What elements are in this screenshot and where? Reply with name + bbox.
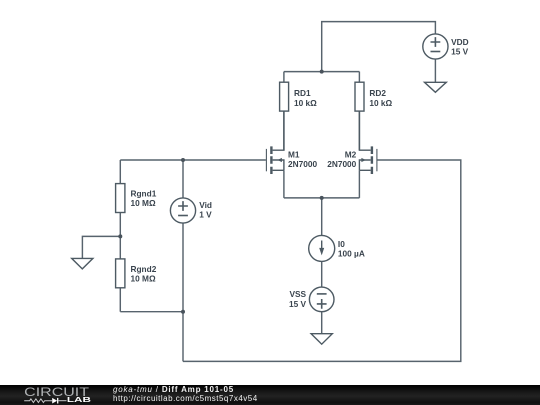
- svg-text:LAB: LAB: [67, 395, 91, 404]
- svg-text:10 kΩ: 10 kΩ: [369, 98, 392, 108]
- svg-text:100 µA: 100 µA: [338, 249, 365, 259]
- CircuitLab logo: [0, 385, 110, 405]
- wire I0 to VSS: [321, 261, 323, 287]
- svg-text:Rgnd1: Rgnd1: [131, 189, 157, 199]
- label Rgnd1 value: [131, 189, 157, 209]
- label VSS value: [289, 289, 307, 309]
- footer title text: [113, 385, 234, 394]
- svg-text:M2: M2: [345, 150, 357, 160]
- svg-text:10 kΩ: 10 kΩ: [294, 98, 317, 108]
- ground (VSS): [311, 334, 332, 345]
- label I0 value: [338, 239, 365, 258]
- current source I0: [309, 235, 335, 261]
- wire bottom rail and right riser to M2 gate: [183, 160, 461, 361]
- svg-text:10 MΩ: 10 MΩ: [131, 274, 156, 284]
- wire Vid branch down to bottom rail: [182, 312, 184, 362]
- label M2 value: [327, 150, 356, 170]
- wire VSS to ground: [321, 311, 323, 333]
- wire gate rail to M1 gate: [120, 159, 266, 161]
- node B junction dot (gate rail / Vid): [181, 158, 185, 162]
- voltage source VSS: [309, 287, 334, 312]
- svg-text:15 V: 15 V: [451, 46, 469, 56]
- svg-text:VSS: VSS: [289, 289, 306, 299]
- node D junction dot (Rgnd divider): [118, 234, 122, 238]
- label VDD value: [451, 37, 469, 56]
- svg-text:RD1: RD1: [294, 88, 311, 98]
- svg-text:2N7000: 2N7000: [288, 159, 317, 169]
- resistor Rgnd2: [116, 259, 125, 288]
- label M1 value: [288, 150, 317, 170]
- node C junction dot (source rail): [320, 196, 324, 200]
- svg-text:Vid: Vid: [199, 200, 212, 210]
- voltage source Vid: [170, 198, 195, 223]
- wire M1 source down: [283, 170, 285, 198]
- wire left ground stub: [82, 236, 120, 258]
- wire RD2 bottom lead to M2 drain: [358, 111, 360, 150]
- svg-text:1 V: 1 V: [199, 210, 212, 220]
- wire Rgnd2 top lead: [119, 236, 121, 259]
- resistor RD2: [355, 82, 364, 111]
- wire Vid top lead: [182, 160, 184, 198]
- wire RD1 bottom lead to M1 drain: [283, 111, 285, 150]
- svg-text:15 V: 15 V: [289, 299, 307, 309]
- transistor M2: [359, 111, 377, 174]
- node A junction dot (top rail): [320, 70, 324, 74]
- node E junction dot (bottom left): [181, 310, 185, 314]
- voltage source VDD: [423, 34, 448, 59]
- footer bar: [0, 385, 540, 405]
- wire Rgnd1 top lead: [119, 160, 121, 184]
- svg-text:2N7000: 2N7000: [327, 159, 356, 169]
- wire drain rail between RD1 and RD2 tops: [284, 71, 360, 73]
- wire top rail from node A up and to VDD: [322, 22, 436, 72]
- wire RD2 top lead: [358, 72, 360, 83]
- wire Rgnd2 bottom lead: [119, 288, 121, 312]
- svg-text:10 MΩ: 10 MΩ: [131, 198, 156, 208]
- wire VDD bottom to ground: [434, 59, 436, 82]
- label Vid value: [199, 200, 212, 220]
- wire M2 source down: [358, 170, 360, 198]
- wire bottom left rail: [120, 311, 183, 313]
- label RD2 value: [369, 88, 392, 108]
- footer url text: [113, 394, 258, 403]
- label Rgnd2 value: [131, 264, 157, 284]
- wire Rgnd1 bottom lead: [119, 213, 121, 237]
- svg-text:RD2: RD2: [369, 88, 386, 98]
- resistor Rgnd1: [116, 184, 125, 213]
- ground (left): [72, 258, 93, 269]
- svg-text:Rgnd2: Rgnd2: [131, 264, 157, 274]
- wire RD1 top lead: [283, 72, 285, 83]
- transistor M1: [266, 111, 284, 174]
- resistor RD1: [280, 82, 289, 111]
- ground (VDD): [425, 82, 447, 92]
- svg-text:M1: M1: [288, 150, 300, 160]
- wire source rail: [284, 197, 360, 199]
- wire source node to I0: [321, 198, 323, 236]
- wire Vid bottom lead: [182, 223, 184, 312]
- label RD1 value: [294, 88, 317, 108]
